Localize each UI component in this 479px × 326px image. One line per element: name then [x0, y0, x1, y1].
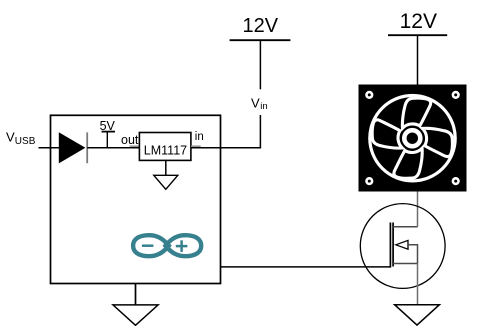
svg-text:12V: 12V: [243, 15, 279, 37]
svg-text:V: V: [251, 96, 260, 111]
supply 12V (left) bar: [230, 39, 291, 41]
wire fan - terminal to MOSFET drain: [417, 192, 419, 227]
Arduino logo right loop: [165, 235, 201, 256]
diode D1 cathode bar: [86, 132, 88, 163]
svg-text:USB: USB: [15, 136, 36, 147]
fan M1: [359, 85, 467, 192]
MOSFET channel bar: [392, 223, 394, 267]
wire diode cathode to LM1117 out: [87, 147, 139, 149]
pin stub out (gray): [130, 145, 140, 147]
MOSFET body circle: [360, 204, 445, 289]
ground wire below LM1117: [165, 160, 167, 175]
Arduino logo plus: [176, 240, 188, 252]
MOSFET body arrow: [396, 240, 408, 249]
svg-text:out: out: [121, 133, 139, 147]
svg-text:in: in: [195, 131, 204, 143]
ground wire below Arduino box: [135, 284, 137, 305]
fan rim circle: [370, 96, 455, 181]
Arduino logo left loop: [133, 235, 169, 256]
MOSFET source stub: [393, 263, 417, 265]
Arduino board outline: [51, 115, 221, 283]
svg-text:in: in: [260, 101, 267, 112]
svg-text:V: V: [6, 130, 15, 145]
fan screw bottom-left: [365, 177, 373, 185]
wire LM1117 in to 12V/Vin corner: [191, 115, 261, 148]
supply 12V (right) bar: [388, 34, 447, 36]
fan screw top-right: [452, 91, 460, 99]
node V_USB label: [6, 130, 36, 147]
MOSFET body connection: [408, 245, 418, 264]
fan body square: [359, 85, 467, 192]
fan blades: [372, 98, 452, 178]
MOSFET drain stub: [393, 226, 417, 228]
MOSFET Q1: [360, 204, 445, 289]
fan screw top-left: [365, 91, 373, 99]
svg-text:LM1117: LM1117: [144, 143, 187, 157]
node Vin label: [251, 96, 268, 113]
pin stub in (gray): [191, 145, 201, 147]
wire 12V bar down to Vin label: [259, 40, 261, 89]
diode D1: [59, 132, 86, 163]
MOSFET gate bar: [389, 223, 391, 268]
wire MOSFET source to ground: [417, 264, 419, 305]
wire 12V bar to fan + terminal: [417, 35, 419, 84]
Arduino logo minus: [142, 244, 154, 247]
svg-text:12V: 12V: [400, 10, 437, 33]
fan hub: [404, 130, 420, 146]
fan screw bottom-right: [452, 177, 460, 185]
svg-text:5V: 5V: [100, 119, 116, 133]
node 5V supply tap: [102, 132, 115, 148]
wire V_USB to diode anode: [39, 147, 60, 149]
ground symbol under LM1117: [154, 175, 178, 189]
ground symbol under Arduino box: [113, 305, 158, 325]
wire gate: Arduino output to MOSFET gate: [221, 266, 391, 268]
ground symbol under MOSFET: [395, 305, 440, 325]
regulator U1 LM1117: [139, 133, 191, 161]
